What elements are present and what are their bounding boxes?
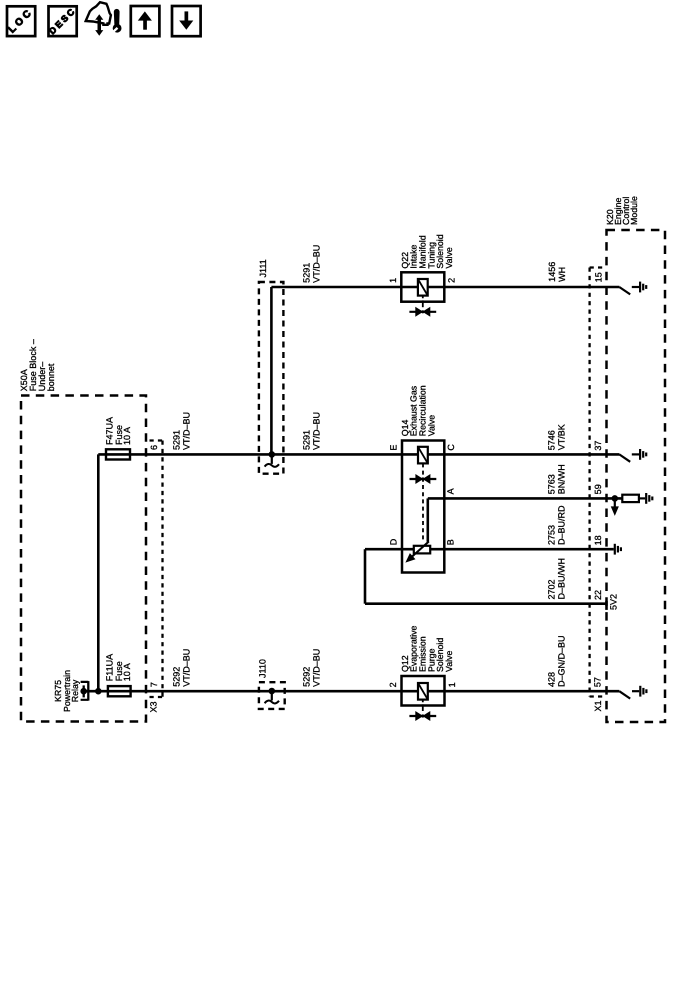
svg-text:D: D (389, 538, 399, 545)
svg-text:5291: 5291 (302, 430, 312, 450)
svg-text:2753: 2753 (546, 525, 556, 545)
svg-text:5763: 5763 (546, 474, 556, 494)
svg-text:bonnet: bonnet (46, 363, 56, 391)
svg-text:A: A (446, 488, 456, 494)
svg-text:D–GN/D–BU: D–GN/D–BU (556, 635, 566, 687)
svg-text:5292: 5292 (302, 667, 312, 687)
svg-text:18: 18 (593, 535, 603, 545)
svg-text:B: B (446, 539, 456, 545)
svg-text:2: 2 (388, 682, 398, 687)
svg-text:BN/WH: BN/WH (556, 464, 566, 494)
svg-text:VT/BK: VT/BK (556, 424, 566, 450)
svg-text:15: 15 (594, 272, 604, 282)
svg-text:C: C (446, 444, 456, 451)
svg-text:428: 428 (546, 672, 556, 687)
svg-text:Relay: Relay (70, 679, 80, 702)
svg-text:22: 22 (593, 590, 603, 600)
svg-text:X3: X3 (149, 701, 159, 712)
svg-text:5746: 5746 (546, 430, 556, 450)
svg-text:Valve: Valve (444, 247, 454, 268)
svg-text:VT/D–BU: VT/D–BU (312, 412, 322, 450)
svg-text:J110: J110 (258, 659, 268, 678)
svg-text:D–BU/RD: D–BU/RD (556, 505, 566, 545)
svg-text:5291: 5291 (171, 430, 181, 450)
svg-text:VT/D–BU: VT/D–BU (312, 649, 322, 687)
svg-text:D–BU/WH: D–BU/WH (556, 558, 566, 600)
svg-text:10 A: 10 A (122, 663, 132, 681)
svg-text:10 A: 10 A (122, 427, 132, 445)
svg-text:Valve: Valve (444, 651, 454, 672)
svg-text:5V2: 5V2 (608, 594, 618, 610)
svg-text:1: 1 (447, 682, 457, 687)
svg-text:WH: WH (557, 267, 567, 282)
svg-text:X1: X1 (593, 700, 603, 711)
svg-text:59: 59 (593, 484, 603, 494)
svg-text:J111: J111 (258, 259, 268, 277)
svg-text:E: E (389, 445, 399, 451)
svg-text:DESC: DESC (47, 5, 78, 36)
svg-text:VT/D–BU: VT/D–BU (312, 245, 322, 283)
svg-text:Valve: Valve (426, 415, 436, 436)
svg-text:2702: 2702 (546, 579, 556, 599)
svg-text:5291: 5291 (302, 263, 312, 283)
svg-text:VT/D–BU: VT/D–BU (181, 649, 191, 687)
svg-text:57: 57 (593, 677, 603, 687)
svg-text:1: 1 (388, 278, 398, 283)
svg-text:37: 37 (593, 441, 603, 451)
svg-text:1456: 1456 (547, 262, 557, 282)
svg-text:7: 7 (149, 682, 159, 687)
svg-text:5292: 5292 (171, 667, 181, 687)
svg-text:LOC: LOC (7, 6, 36, 35)
svg-text:Module: Module (629, 196, 639, 225)
svg-text:VT/D–BU: VT/D–BU (181, 412, 191, 450)
svg-text:6: 6 (149, 445, 159, 450)
svg-text:2: 2 (447, 278, 457, 283)
